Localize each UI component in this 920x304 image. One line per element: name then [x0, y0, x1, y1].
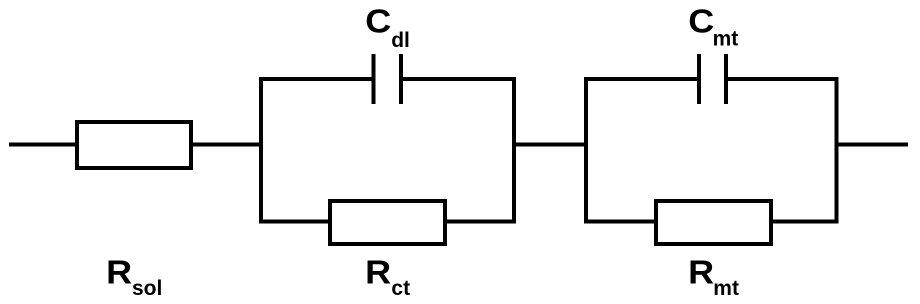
svg-text:ct: ct	[391, 277, 410, 300]
svg-text:mt: mt	[713, 277, 739, 300]
svg-text:mt: mt	[713, 28, 739, 51]
svg-text:dl: dl	[391, 29, 410, 52]
svg-text:R: R	[365, 254, 391, 291]
svg-text:C: C	[688, 3, 714, 40]
svg-text:R: R	[688, 254, 714, 291]
svg-text:R: R	[106, 254, 132, 291]
svg-text:C: C	[365, 3, 391, 40]
svg-text:sol: sol	[132, 277, 162, 300]
